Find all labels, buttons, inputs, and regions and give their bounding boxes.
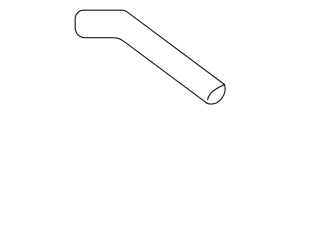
hose outline	[75, 10, 225, 104]
hose part drawing	[0, 0, 300, 116]
hose open-end inner rim arc	[208, 85, 225, 100]
